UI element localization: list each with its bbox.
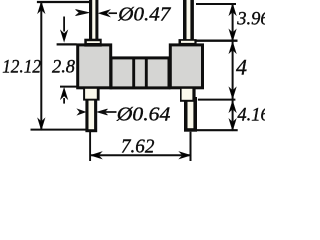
dimension 4.16 line bbox=[229, 100, 236, 131]
extension line pin bottom right bbox=[197, 129, 238, 131]
svg-text:2.8: 2.8 bbox=[52, 58, 76, 78]
divider line 1 bbox=[132, 58, 135, 88]
label 4.16 bbox=[237, 105, 270, 125]
svg-text:4.16: 4.16 bbox=[237, 105, 265, 125]
dimension 4 line bbox=[229, 41, 236, 100]
dimension 2.8 bottom extension line bbox=[60, 86, 77, 88]
top-right pin collar bbox=[179, 39, 197, 46]
dimension 2.8 top extension line bbox=[57, 43, 77, 45]
svg-text:12.12: 12.12 bbox=[2, 58, 41, 78]
dimension 7.62 right extension line bbox=[190, 132, 192, 161]
bottom-left pin bbox=[85, 97, 97, 132]
dimension Ø0.47 left arrow bbox=[76, 10, 90, 16]
svg-text:Ø0.47: Ø0.47 bbox=[117, 4, 171, 26]
dimension 2.8 lower arrow bbox=[61, 88, 68, 104]
bottom-right pin bbox=[184, 97, 197, 132]
label Ø0.47 bbox=[117, 4, 171, 26]
bottom-right pin collar bbox=[180, 87, 196, 102]
label 2.8 bbox=[52, 58, 76, 78]
top-left pin collar bbox=[84, 39, 101, 47]
extension line collar bottom right bbox=[198, 99, 236, 101]
dimension 3.96 line bbox=[229, 4, 236, 41]
dimension 12.12 line bbox=[38, 2, 45, 130]
left end block bbox=[78, 45, 111, 88]
divider line 2 bbox=[145, 58, 148, 88]
top-right pin bbox=[183, 0, 194, 42]
right end block bbox=[170, 45, 202, 88]
dimension 7.62 left extension line bbox=[89, 132, 91, 161]
dimension 12.12 top extension line bbox=[37, 1, 89, 3]
dimension 12.12 bottom extension line bbox=[31, 129, 87, 131]
dimension Ø0.64 left arrow bbox=[78, 109, 86, 115]
label 12.12 bbox=[2, 58, 41, 78]
label 3.96 bbox=[236, 10, 270, 30]
svg-text:Ø0.64: Ø0.64 bbox=[116, 103, 171, 125]
svg-text:3.96: 3.96 bbox=[236, 10, 265, 30]
svg-text:4: 4 bbox=[236, 54, 247, 79]
dimension Ø0.64 right arrow and leader bbox=[97, 109, 116, 115]
dimension Ø0.47 right arrow and leader bbox=[99, 10, 117, 17]
bottom-left pin collar bbox=[83, 87, 100, 101]
label 4 bbox=[236, 54, 247, 79]
top-left pin bbox=[89, 0, 98, 42]
label Ø0.64 bbox=[116, 103, 171, 125]
label 7.62 bbox=[121, 135, 154, 157]
svg-text:7.62: 7.62 bbox=[121, 135, 154, 157]
dimension 2.8 upper arrow bbox=[61, 17, 68, 42]
middle bar of body bbox=[111, 58, 169, 88]
extension line collar top right bbox=[196, 40, 237, 42]
extension line top right (pin tip level) bbox=[196, 3, 236, 5]
dimension 7.62 line bbox=[90, 152, 190, 159]
